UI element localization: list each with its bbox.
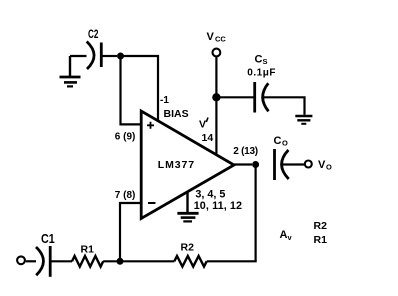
op-amp U1 LM377 xyxy=(141,111,234,219)
svg-text:CC: CC xyxy=(215,35,226,44)
terminal Vcc xyxy=(207,31,227,56)
svg-text:14: 14 xyxy=(202,132,214,144)
node C2/bias junction xyxy=(117,53,124,60)
capacitor C1 xyxy=(36,232,55,277)
pin label -1 BIAS xyxy=(160,95,189,120)
wire ground to C2 xyxy=(70,55,87,57)
wire C1 to R1 xyxy=(52,260,73,262)
svg-text:-1: -1 xyxy=(160,95,169,106)
svg-text:10, 11, 12: 10, 11, 12 xyxy=(194,200,242,212)
ground (op-amp) xyxy=(177,192,198,221)
wire op-amp output to node xyxy=(234,163,252,165)
svg-text:R2: R2 xyxy=(314,220,328,232)
svg-text:2 (13): 2 (13) xyxy=(233,146,258,157)
wire Vcc to node xyxy=(215,57,217,95)
wire node to CS xyxy=(216,96,253,98)
pin label V' 14 xyxy=(199,118,213,145)
terminal input xyxy=(17,256,25,264)
wire node to R2 xyxy=(120,260,174,262)
label Av gain xyxy=(280,220,328,246)
wire C2 to node xyxy=(103,55,118,57)
wire CO to VO terminal xyxy=(282,163,304,165)
resistor R1 xyxy=(72,244,103,267)
svg-text:C1: C1 xyxy=(41,232,55,246)
ground (C2 bypass) xyxy=(60,56,81,86)
svg-text:C2: C2 xyxy=(88,29,99,42)
node Vcc junction xyxy=(212,93,220,101)
svg-text:C: C xyxy=(274,135,282,147)
svg-text:BIAS: BIAS xyxy=(164,108,189,120)
svg-text:S: S xyxy=(263,57,268,66)
svg-text:LM377: LM377 xyxy=(158,159,195,171)
svg-text:R1: R1 xyxy=(81,244,95,256)
wire output node down (feedback) xyxy=(255,165,257,262)
svg-text:V: V xyxy=(207,31,215,43)
capacitor CS 0.1uF xyxy=(247,54,276,113)
wire input terminal to C1 xyxy=(26,260,36,262)
svg-text:A: A xyxy=(280,229,288,241)
svg-text:0.1μF: 0.1μF xyxy=(247,68,276,79)
capacitor CO xyxy=(274,135,289,180)
node output junction xyxy=(252,161,259,168)
wire node to bias pin xyxy=(121,56,159,121)
terminal VO xyxy=(305,159,332,172)
svg-text:C: C xyxy=(255,54,263,66)
wire node to + input xyxy=(121,56,142,124)
svg-text:3, 4, 5: 3, 4, 5 xyxy=(195,189,225,201)
wire CS to ground xyxy=(263,97,305,115)
wire node to pin 14 xyxy=(215,97,217,155)
node feedback junction xyxy=(117,258,124,265)
wire R2 to feedback corner xyxy=(207,260,257,262)
wire R1 to node xyxy=(103,260,120,262)
svg-text:O: O xyxy=(326,163,332,172)
svg-text:v: v xyxy=(288,233,293,242)
svg-text:7 (8): 7 (8) xyxy=(115,190,136,201)
svg-text:O: O xyxy=(282,139,288,148)
capacitor C2 xyxy=(87,29,102,69)
pin labels 3,4,5 10,11,12 xyxy=(194,189,242,212)
svg-text:6 (9): 6 (9) xyxy=(115,132,136,143)
svg-text:R1: R1 xyxy=(314,234,328,246)
svg-text:R2: R2 xyxy=(181,242,195,254)
ground (CS) xyxy=(295,116,312,124)
resistor R2 xyxy=(174,242,206,267)
svg-text:V: V xyxy=(318,159,326,171)
wire node to - input xyxy=(120,203,141,261)
svg-text:V: V xyxy=(199,119,206,131)
